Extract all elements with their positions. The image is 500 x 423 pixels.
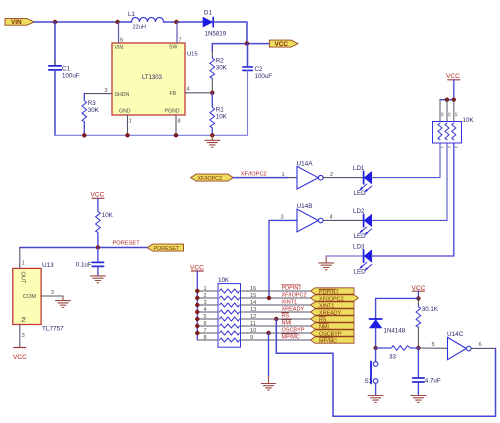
- junction: [245, 41, 249, 45]
- inverter U14A: [297, 160, 324, 189]
- SECTION: reset: [13, 192, 184, 361]
- svg-text:10K: 10K: [216, 114, 228, 121]
- SECTION: leds: [191, 73, 475, 298]
- svg-text:LED: LED: [354, 190, 367, 197]
- svg-text:3: 3: [22, 333, 25, 339]
- svg-text:U15: U15: [187, 51, 198, 57]
- svg-text:10: 10: [250, 328, 256, 334]
- wire gnd to LD3: [326, 255, 363, 257]
- junction FB: [210, 91, 214, 95]
- pin 2 COM: [41, 295, 63, 297]
- pin 3 wire SHDN: [84, 93, 112, 95]
- svg-text:U14B: U14B: [297, 203, 313, 210]
- junction: [373, 346, 377, 350]
- svg-text:15: 15: [447, 112, 452, 117]
- port XREADY: [311, 309, 355, 315]
- resistor pack RP 10K: [218, 277, 241, 347]
- junction row12: [274, 317, 278, 321]
- wire PORESET: [20, 247, 148, 249]
- svg-text:COM: COM: [23, 294, 36, 300]
- svg-text:4: 4: [330, 215, 333, 221]
- led LD2: [353, 208, 372, 240]
- svg-text:R3: R3: [88, 100, 96, 107]
- junction: [210, 133, 214, 137]
- port MP/MC: [311, 337, 355, 343]
- svg-text:PORESET: PORESET: [154, 246, 180, 252]
- svg-text:OUT: OUT: [20, 272, 26, 284]
- resistor 10K: [96, 210, 114, 248]
- inverter U14B: [297, 203, 324, 232]
- pack resistors r1-r8: [220, 289, 240, 342]
- wire LD1 to pack: [372, 143, 440, 177]
- svg-text:1: 1: [282, 172, 285, 178]
- svg-text:C2: C2: [255, 66, 263, 73]
- svg-text:4.7uF: 4.7uF: [425, 378, 441, 385]
- port PDPINT: [311, 288, 355, 294]
- pin 3 IN: [19, 325, 21, 348]
- svg-text:10K: 10K: [218, 277, 230, 284]
- junction: [445, 98, 449, 102]
- wire VIN to L1: [34, 21, 131, 23]
- power VCC: [91, 192, 105, 210]
- svg-text:30K: 30K: [216, 65, 228, 72]
- svg-text:7: 7: [204, 328, 207, 334]
- inductor L1: [128, 11, 164, 31]
- svg-text:10K: 10K: [102, 212, 114, 219]
- svg-text:2: 2: [51, 290, 54, 296]
- port RS: [311, 316, 355, 322]
- resistor 30.1K: [416, 298, 439, 348]
- SECTION: power supply: [5, 10, 298, 148]
- switch S1: [365, 348, 378, 395]
- svg-text:VCC: VCC: [446, 73, 460, 80]
- pack left pin rows 1-8: [197, 291, 218, 340]
- power VCC: [190, 265, 204, 272]
- diode D1 1N5819: [203, 10, 227, 38]
- svg-text:D1: D1: [204, 10, 212, 17]
- svg-text:100uF: 100uF: [62, 73, 80, 80]
- svg-text:2: 2: [204, 293, 207, 299]
- ground: [90, 276, 105, 283]
- junction row15: [267, 296, 271, 300]
- svg-text:7: 7: [179, 38, 182, 44]
- wire pack top bus: [440, 99, 454, 101]
- svg-text:SW: SW: [169, 45, 177, 51]
- svg-text:C1: C1: [62, 65, 70, 72]
- port XINT1: [311, 302, 355, 308]
- ports column: [311, 288, 359, 345]
- svg-text:U14A: U14A: [297, 160, 314, 167]
- junction: [174, 20, 178, 24]
- pack right pin rows 16-9: [241, 291, 311, 340]
- svg-text:PORESET: PORESET: [113, 241, 141, 247]
- port XF/IOPC2: [191, 174, 234, 182]
- svg-text:8: 8: [204, 335, 207, 341]
- net labels column: [282, 285, 307, 341]
- pin 2 stub wire to LD1: [323, 177, 363, 179]
- svg-text:LED: LED: [354, 269, 367, 276]
- ground: [56, 296, 71, 308]
- SECTION: pack: [190, 265, 359, 391]
- ground LD3: [319, 256, 334, 270]
- svg-text:VCC: VCC: [275, 41, 289, 48]
- pin 4 stub wire to LD2: [323, 219, 363, 221]
- wire LD3 to pack: [372, 143, 454, 256]
- wire diode to node: [375, 328, 377, 348]
- svg-text:VIN: VIN: [11, 19, 22, 26]
- junction: [416, 346, 420, 350]
- svg-text:14: 14: [250, 300, 256, 306]
- capacitor 0.1uF: [76, 248, 104, 276]
- power VCC: [13, 348, 27, 361]
- pin 8 PGND: [175, 115, 177, 135]
- svg-text:33: 33: [389, 354, 396, 361]
- svg-text:3: 3: [281, 215, 284, 221]
- svg-text:30K: 30K: [88, 107, 100, 114]
- wire D1 to VCC node: [214, 22, 247, 44]
- svg-text:FB: FB: [170, 91, 177, 97]
- port OSCBYP: [311, 330, 355, 336]
- junction: [174, 133, 178, 137]
- power VCC top right: [446, 73, 460, 100]
- resistor 33: [376, 346, 419, 361]
- svg-text:1: 1: [22, 261, 25, 267]
- svg-text:1N5819: 1N5819: [205, 30, 227, 37]
- port PORESET: [147, 244, 183, 252]
- junction: [452, 98, 456, 102]
- svg-text:LT1303: LT1303: [142, 75, 163, 81]
- svg-text:L1: L1: [128, 11, 135, 18]
- svg-text:R2: R2: [216, 58, 224, 65]
- svg-text:OSCBYP: OSCBYP: [282, 328, 305, 334]
- svg-text:RS: RS: [282, 314, 290, 320]
- svg-text:13: 13: [250, 307, 256, 313]
- junction: [416, 296, 420, 300]
- wire L1 to D1: [164, 21, 204, 23]
- svg-text:PDPINT: PDPINT: [282, 286, 303, 292]
- svg-text:9: 9: [250, 335, 253, 341]
- svg-text:XINT1: XINT1: [282, 300, 298, 306]
- svg-text:XF/IOPC2: XF/IOPC2: [198, 176, 223, 182]
- resistor pack 10K top right: [433, 100, 475, 149]
- svg-text:VCC: VCC: [91, 192, 105, 199]
- svg-text:4: 4: [204, 307, 207, 313]
- svg-text:S1: S1: [365, 378, 373, 385]
- svg-text:XF/IOPC2: XF/IOPC2: [241, 171, 267, 177]
- svg-text:4: 4: [187, 86, 190, 92]
- junctions on VCC bus: [195, 289, 199, 335]
- pin 6: [118, 22, 120, 43]
- svg-text:GND: GND: [119, 108, 131, 114]
- feedback wire to RS row: [276, 319, 495, 416]
- svg-text:6: 6: [479, 342, 482, 348]
- svg-text:U13: U13: [42, 262, 54, 269]
- svg-text:5: 5: [432, 342, 435, 348]
- wire U14B input: [269, 220, 297, 298]
- pin 1 OUT: [19, 248, 21, 269]
- junction: [53, 20, 57, 24]
- port XF/IOPC2: [311, 295, 359, 301]
- pin 1 stub: [288, 177, 297, 179]
- junction: [115, 20, 119, 24]
- svg-text:10K: 10K: [463, 117, 475, 124]
- svg-text:3: 3: [105, 88, 108, 94]
- svg-text:SHDN: SHDN: [115, 92, 130, 98]
- svg-text:6: 6: [120, 38, 123, 44]
- resistor R2: [210, 51, 228, 93]
- pin 7: [176, 22, 178, 43]
- svg-text:NMI: NMI: [282, 321, 293, 327]
- svg-text:30.1K: 30.1K: [422, 306, 439, 313]
- wire VCC node to port: [247, 43, 269, 45]
- svg-text:11: 11: [250, 321, 256, 327]
- svg-text:15: 15: [250, 293, 256, 299]
- pack left pin numbers: [204, 286, 207, 341]
- svg-text:5: 5: [204, 314, 207, 320]
- resistor R1: [210, 93, 228, 136]
- power VCC: [412, 285, 426, 299]
- wire VCC bus left of pack: [196, 271, 198, 340]
- capacitor C1: [49, 22, 80, 135]
- port VIN: [5, 19, 34, 27]
- led LD1: [353, 165, 372, 197]
- ground 4.7uF: [411, 396, 426, 403]
- svg-text:MP/MC: MP/MC: [282, 335, 300, 341]
- svg-text:IN: IN: [20, 317, 26, 323]
- wire row10 to ground: [268, 333, 270, 376]
- led LD3: [353, 244, 372, 276]
- wire port to U14A: [233, 177, 288, 179]
- svg-text:16: 16: [440, 112, 445, 117]
- resistor R3: [82, 94, 100, 136]
- diode 1N4148: [369, 319, 405, 334]
- svg-text:16: 16: [250, 286, 256, 292]
- svg-text:14: 14: [454, 112, 459, 117]
- wire node to U14C: [418, 347, 447, 349]
- svg-text:VIN: VIN: [115, 45, 124, 51]
- svg-text:TL7757: TL7757: [42, 325, 64, 332]
- svg-text:3: 3: [204, 300, 207, 306]
- pin 6 output wire: [471, 347, 495, 349]
- SECTION: osc: [276, 285, 495, 416]
- svg-text:8: 8: [178, 118, 181, 124]
- svg-text:PGND: PGND: [165, 108, 180, 114]
- wire LD2 to pack: [372, 143, 447, 220]
- svg-text:XF/IOPC2: XF/IOPC2: [282, 293, 307, 299]
- port VCC: [269, 40, 298, 48]
- port NMI: [311, 323, 355, 329]
- svg-text:LED: LED: [354, 233, 367, 240]
- svg-text:22uH: 22uH: [133, 25, 146, 31]
- svg-text:2: 2: [330, 172, 333, 178]
- svg-text:R1: R1: [216, 107, 224, 114]
- svg-text:100uF: 100uF: [255, 73, 273, 80]
- ground: [205, 135, 220, 147]
- inverter U14C: [447, 331, 471, 360]
- svg-text:6: 6: [204, 321, 207, 327]
- svg-text:VCC: VCC: [13, 354, 27, 361]
- svg-text:0.1uF: 0.1uF: [76, 262, 92, 269]
- svg-text:1: 1: [129, 118, 132, 124]
- junction: [125, 133, 129, 137]
- regulator U13 TL7757: [13, 262, 64, 332]
- svg-text:U14C: U14C: [447, 331, 464, 338]
- junction row10: [266, 331, 270, 335]
- ground S1: [368, 396, 383, 403]
- pin 1 GND: [127, 115, 129, 135]
- svg-text:1N4148: 1N4148: [384, 327, 406, 334]
- svg-text:XREADY: XREADY: [282, 307, 305, 313]
- wire vcc node to diode branch: [376, 298, 419, 318]
- capacitor 4.7uF: [413, 348, 441, 395]
- pack right pin numbers: [250, 286, 256, 341]
- svg-text:12: 12: [250, 314, 256, 320]
- ground rail wire: [55, 134, 248, 136]
- wire VCC node left to R2: [212, 44, 247, 51]
- capacitor C2: [243, 44, 272, 136]
- power chip U15 LT1303: [112, 43, 198, 115]
- junction: [96, 245, 100, 249]
- pin 4 wire FB: [185, 92, 212, 94]
- junction: [82, 133, 86, 137]
- svg-text:MP/MC: MP/MC: [319, 338, 337, 344]
- svg-text:1: 1: [204, 286, 207, 292]
- ground below pack: [261, 376, 275, 390]
